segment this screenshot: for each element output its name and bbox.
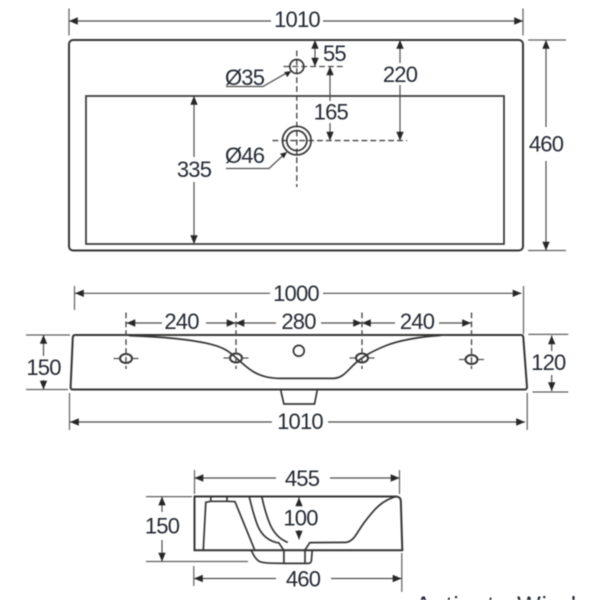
dim 1010 (plan top) [69,7,523,36]
bowl back curve A (side) [249,497,277,543]
svg-text:335: 335 [177,157,212,182]
dim 460 (plan right) [528,40,566,251]
drain flange right edge (side) [284,550,312,563]
basin outer rect (plan) [69,40,523,251]
apron (side) [251,550,284,563]
svg-text:240: 240 [400,309,435,334]
drain notch (front bottom) [281,391,317,404]
label Ø46 with leader [225,143,287,169]
dim 220 [383,40,418,141]
svg-text:150: 150 [26,355,61,380]
bowl back curve B (side) [262,496,288,542]
svg-text:Activate Windo: Activate Windo [415,592,592,600]
svg-text:280: 280 [281,309,316,334]
svg-text:1010: 1010 [274,7,320,32]
drain centre dashed line [273,140,408,142]
bowl profile curve (front) [129,335,441,378]
svg-text:120: 120 [531,350,566,375]
dim 1000 (front top) [75,281,524,334]
svg-text:240: 240 [164,309,199,334]
fixing hole 4 (front) [466,355,478,364]
svg-text:1000: 1000 [273,281,319,306]
dim 335 [177,96,212,244]
label Ø35 with leader [225,65,292,90]
front outline [71,335,527,390]
svg-text:1010: 1010 [277,409,323,434]
fixing hole 1 (front) [120,354,132,363]
svg-text:460: 460 [529,132,564,157]
dim 150 (front left) [26,335,70,390]
dim 120 (front right) [528,334,568,392]
svg-text:220: 220 [383,62,418,87]
svg-text:460: 460 [286,567,321,592]
side body outline [195,497,403,551]
bowl bottom and front rise (side) [278,496,397,550]
overflow hole (front) [293,345,304,356]
dim 1010 (front bottom) [70,393,528,434]
svg-text:455: 455 [285,466,320,491]
svg-text:55: 55 [323,41,346,66]
svg-text:Ø46: Ø46 [225,143,265,168]
faucet hole centre dashed lines [284,66,344,68]
svg-text:165: 165 [314,100,349,125]
dim 455 (side top) [195,466,400,494]
wall bracket tab [210,497,212,502]
wall bracket (side) [203,501,254,549]
faucet hole (plan) [290,60,304,74]
basin inner rect (plan) [86,96,504,244]
fixing hole 2 (front) [230,354,242,363]
dim 150 (side left) [145,497,248,562]
svg-text:150: 150 [145,514,180,539]
drain hole (plan) [283,126,312,155]
svg-text:100: 100 [283,506,318,531]
dim 165 [314,67,349,141]
dim 100 (side middle) [283,498,318,540]
drain tailpiece (side) [283,550,285,563]
dims 240 / 280 / 240 (front) [127,309,472,334]
fixing hole 3 (front) [356,354,368,363]
dim 460 (side bottom) [194,553,402,592]
dim 55 [311,40,346,67]
